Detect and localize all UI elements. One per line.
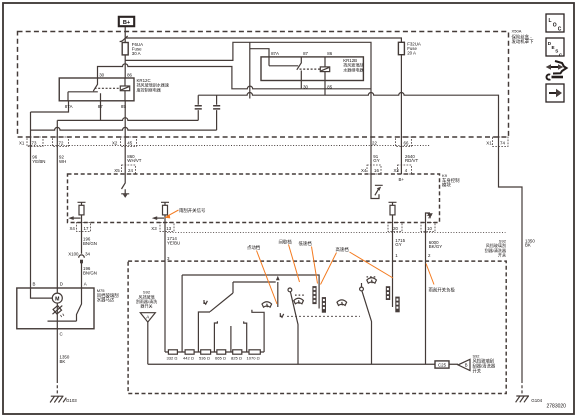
svg-text:BN/GN: BN/GN bbox=[83, 241, 97, 246]
svg-text:开关: 开关 bbox=[473, 367, 482, 374]
svg-text:L: L bbox=[549, 18, 552, 24]
svg-text:X5: X5 bbox=[114, 168, 120, 173]
svg-text:B: B bbox=[33, 281, 36, 286]
svg-text:X2: X2 bbox=[112, 140, 118, 145]
svg-text:YE/BU: YE/BU bbox=[167, 240, 180, 245]
svg-text:WH: WH bbox=[59, 159, 66, 164]
svg-text:雨刮开关信号: 雨刮开关信号 bbox=[179, 207, 206, 214]
svg-text:665 Ω: 665 Ω bbox=[215, 355, 226, 360]
svg-text:器开关: 器开关 bbox=[140, 303, 152, 309]
svg-text:34: 34 bbox=[85, 251, 90, 256]
svg-text:水器继电器: 水器继电器 bbox=[343, 67, 363, 73]
svg-text:20: 20 bbox=[393, 226, 398, 231]
svg-text:低速档: 低速档 bbox=[299, 240, 313, 247]
svg-text:X1: X1 bbox=[19, 140, 25, 145]
svg-text:高速档: 高速档 bbox=[336, 246, 350, 253]
svg-text:雨刮开关负极: 雨刮开关负极 bbox=[429, 286, 456, 293]
svg-text:BN/GN: BN/GN bbox=[83, 271, 97, 276]
svg-text:72: 72 bbox=[59, 140, 64, 145]
svg-text:22: 22 bbox=[372, 140, 377, 145]
svg-text:X100: X100 bbox=[68, 251, 79, 256]
svg-text:X4: X4 bbox=[361, 168, 367, 173]
svg-text:30: 30 bbox=[99, 72, 104, 77]
svg-text:BK: BK bbox=[60, 359, 66, 364]
svg-text:87A: 87A bbox=[271, 51, 279, 56]
svg-text:B+: B+ bbox=[399, 177, 405, 182]
svg-text:24: 24 bbox=[128, 168, 133, 173]
svg-text:开关: 开关 bbox=[498, 252, 506, 258]
svg-text:536 Ω: 536 Ω bbox=[199, 355, 210, 360]
svg-text:G104: G104 bbox=[531, 398, 542, 403]
svg-text:2783020: 2783020 bbox=[547, 403, 567, 409]
svg-text:水器马达: 水器马达 bbox=[97, 296, 115, 303]
svg-text:66: 66 bbox=[404, 140, 409, 145]
svg-text:1070 Ω: 1070 Ω bbox=[247, 355, 260, 360]
svg-text:17: 17 bbox=[84, 226, 89, 231]
svg-text:YE/BN: YE/BN bbox=[32, 159, 45, 164]
svg-text:C25: C25 bbox=[438, 363, 447, 368]
svg-text:BK: BK bbox=[525, 243, 531, 248]
svg-text:E: E bbox=[552, 45, 555, 50]
svg-text:30 A: 30 A bbox=[132, 51, 141, 56]
svg-text:M: M bbox=[55, 296, 59, 302]
svg-text:86: 86 bbox=[327, 51, 332, 56]
svg-text:X3: X3 bbox=[394, 168, 400, 173]
svg-text:87: 87 bbox=[303, 51, 308, 56]
svg-text:86: 86 bbox=[127, 72, 132, 77]
svg-text:O: O bbox=[553, 22, 557, 28]
svg-text:发动机罩下: 发动机罩下 bbox=[512, 38, 535, 45]
svg-text:模块: 模块 bbox=[442, 182, 451, 189]
svg-text:74: 74 bbox=[500, 140, 505, 145]
svg-text:13: 13 bbox=[166, 226, 171, 231]
svg-text:X4: X4 bbox=[70, 226, 76, 231]
svg-text:B: B bbox=[465, 363, 468, 368]
svg-text:87: 87 bbox=[98, 104, 103, 109]
svg-text:85: 85 bbox=[121, 104, 126, 109]
svg-text:B+: B+ bbox=[123, 20, 131, 26]
svg-text:D: D bbox=[60, 281, 63, 286]
svg-text:G103: G103 bbox=[66, 398, 77, 403]
svg-text:S: S bbox=[555, 49, 558, 54]
svg-text:73: 73 bbox=[32, 140, 37, 145]
svg-text:87A: 87A bbox=[65, 104, 73, 109]
svg-text:度控制继电器: 度控制继电器 bbox=[137, 87, 161, 93]
svg-text:GY: GY bbox=[395, 242, 401, 247]
svg-text:A: A bbox=[84, 281, 87, 286]
svg-text:X50A: X50A bbox=[512, 29, 522, 34]
svg-text:RD/VT: RD/VT bbox=[405, 158, 418, 163]
svg-text:间歇档: 间歇档 bbox=[279, 238, 293, 245]
svg-text:X1: X1 bbox=[486, 140, 492, 145]
svg-text:GY: GY bbox=[373, 158, 379, 163]
svg-text:BK/GY: BK/GY bbox=[429, 244, 442, 249]
svg-text:825 Ω: 825 Ω bbox=[231, 355, 242, 360]
svg-text:C: C bbox=[60, 331, 63, 336]
svg-text:85: 85 bbox=[327, 84, 332, 89]
svg-text:C: C bbox=[558, 27, 562, 33]
svg-text:16: 16 bbox=[374, 168, 379, 173]
svg-text:332 Ω: 332 Ω bbox=[167, 355, 178, 360]
svg-text:X3: X3 bbox=[151, 226, 157, 231]
svg-text:WH/VT: WH/VT bbox=[127, 158, 141, 163]
svg-text:10: 10 bbox=[427, 226, 432, 231]
svg-text:442 Ω: 442 Ω bbox=[183, 355, 194, 360]
svg-text:点动档: 点动档 bbox=[247, 244, 261, 251]
svg-text:20 A: 20 A bbox=[407, 51, 416, 56]
svg-text:30: 30 bbox=[303, 84, 308, 89]
svg-text:45: 45 bbox=[127, 140, 132, 145]
